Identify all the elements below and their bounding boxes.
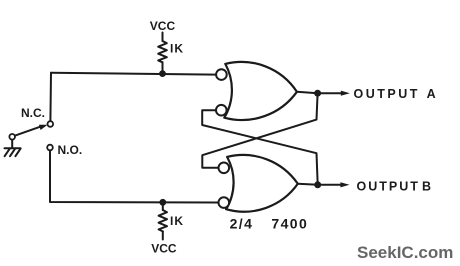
svg-text:N.O.: N.O.	[58, 143, 83, 157]
svg-text:OUTPUT: OUTPUT	[357, 179, 420, 193]
svg-text:N.C.: N.C.	[21, 106, 45, 120]
svg-text:IK: IK	[170, 42, 184, 56]
svg-text:VCC: VCC	[151, 242, 177, 256]
svg-text:B: B	[422, 179, 431, 193]
svg-text:7400: 7400	[271, 216, 308, 232]
svg-text:2/4: 2/4	[230, 216, 254, 232]
svg-text:SeekIC.com: SeekIC.com	[357, 243, 453, 262]
svg-text:A: A	[427, 87, 436, 101]
svg-text:VCC: VCC	[150, 19, 176, 33]
svg-text:OUTPUT: OUTPUT	[354, 87, 420, 101]
svg-text:IK: IK	[170, 214, 184, 228]
